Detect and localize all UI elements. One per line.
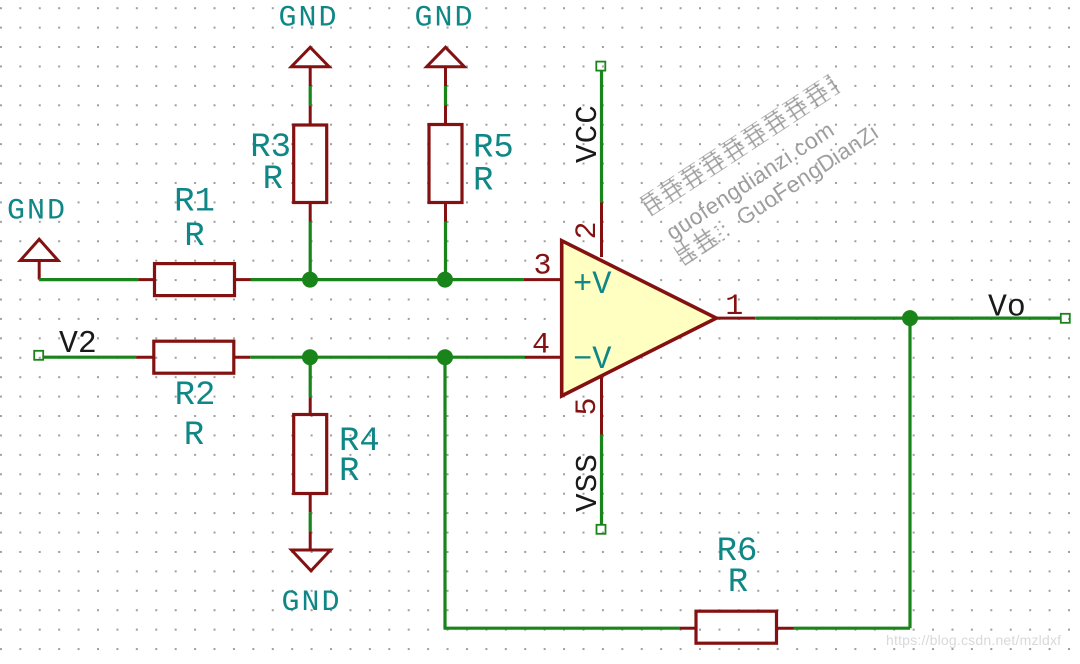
svg-text:R2: R2: [175, 377, 216, 415]
wire R4 to GND4: [309, 512, 312, 531]
svg-text:R1: R1: [174, 184, 215, 222]
junction at output / feedback: [902, 310, 918, 326]
ground symbol GND3 (above R5): [427, 47, 465, 86]
wire GND2 to R3: [309, 86, 312, 106]
wire from GND1 to R1: [39, 278, 138, 281]
feedback wire bottom left segment: [444, 627, 681, 630]
svg-text:R: R: [473, 163, 493, 201]
svg-text:2: 2: [571, 221, 605, 239]
pin 2 of op-amp (VCC): [600, 203, 603, 258]
wire junction to R4: [309, 357, 312, 397]
resistor R5: [429, 106, 462, 222]
op-amp U1 body: [562, 241, 717, 396]
pin 3 of op-amp: [524, 278, 562, 281]
svg-text:1: 1: [725, 290, 743, 324]
svg-text:+V: +V: [573, 266, 612, 303]
resistor R3: [294, 106, 327, 222]
ground symbol GND4 (below R4, pointing down): [292, 532, 331, 571]
pin 4 of op-amp: [525, 356, 562, 359]
resistor R1: [138, 264, 250, 296]
ground symbol GND2 (above R3): [291, 47, 329, 86]
wire V2 to R2: [43, 356, 136, 359]
terminal square V2: [34, 351, 43, 360]
wire GND3 to R5: [444, 86, 447, 106]
svg-text:https://blog.csdn.net/mzldxf: https://blog.csdn.net/mzldxf: [886, 632, 1061, 648]
wire output to Vo: [755, 317, 1061, 320]
pin 1 of op-amp (output): [716, 317, 755, 320]
svg-text:GND: GND: [7, 195, 67, 229]
svg-text:R: R: [728, 564, 748, 602]
svg-text:GND: GND: [414, 2, 474, 36]
svg-text:R: R: [184, 218, 204, 256]
svg-text:VCC: VCC: [571, 104, 606, 163]
wire VCC: [600, 71, 603, 203]
resistor R4: [294, 397, 327, 512]
svg-text:R: R: [339, 453, 359, 491]
terminal square VCC: [596, 62, 605, 71]
terminal square VSS: [597, 525, 606, 534]
feedback wire up to output junction: [908, 318, 911, 628]
wire R3 to junction: [309, 222, 312, 280]
feedback wire bottom right segment: [794, 627, 911, 630]
resistor R2: [136, 341, 250, 373]
wire R5 to junction: [444, 222, 447, 280]
svg-text:R: R: [184, 417, 204, 455]
terminal square Vo: [1061, 314, 1070, 323]
svg-text:VSS: VSS: [571, 453, 606, 512]
junction at R5 bottom / top wire: [437, 272, 453, 288]
wire R1 to op-amp pin3: [251, 278, 524, 281]
svg-text:Vo: Vo: [988, 291, 1026, 326]
junction at R3 bottom / top wire: [302, 272, 318, 288]
resistor R6: [680, 611, 794, 643]
wire VSS: [600, 435, 603, 525]
svg-text:GND: GND: [281, 586, 341, 620]
wire R2 to op-amp pin4: [250, 356, 525, 359]
watermark center: [640, 69, 883, 269]
feedback wire down from bottom-row junction: [443, 357, 446, 628]
svg-text:4: 4: [532, 329, 550, 363]
svg-text:−V: −V: [573, 341, 612, 378]
junction at feedback / bottom wire: [437, 349, 453, 365]
svg-text:5: 5: [571, 397, 605, 415]
pin 5 of op-amp (VSS): [600, 378, 603, 435]
svg-text:3: 3: [533, 250, 551, 284]
junction at R4 top / bottom wire: [302, 349, 318, 365]
svg-text:R: R: [263, 161, 283, 199]
svg-text:GND: GND: [278, 2, 338, 36]
ground symbol GND1 (left): [20, 239, 58, 279]
